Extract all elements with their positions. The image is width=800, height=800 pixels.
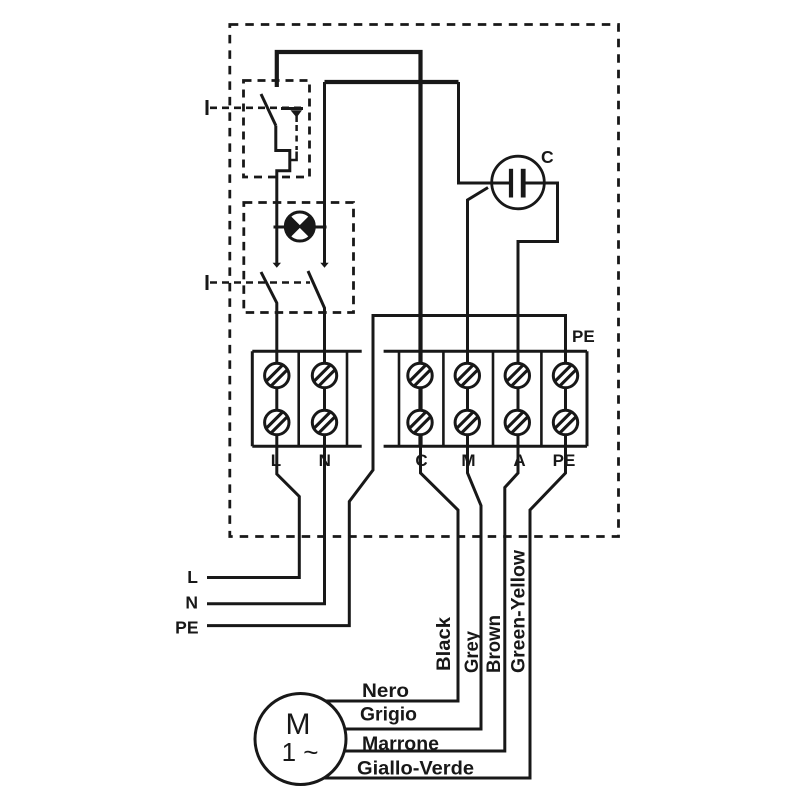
svg-text:Marrone: Marrone (362, 734, 439, 755)
switch S1 blade (261, 94, 276, 126)
svg-text:Brown: Brown (484, 615, 505, 673)
svg-text:L: L (271, 451, 281, 470)
S1 trip arrow (281, 107, 303, 110)
switch S2 left fixed contact foot (273, 263, 281, 268)
terminal N screws (312, 363, 336, 434)
terminal A screws (505, 363, 529, 434)
wire: lamp-branch top horizontal to capacitor feed (thick) (325, 80, 459, 84)
wire: PE terminal down to motor green-yellow lead (325, 375, 566, 778)
capacitor left lead inside circle (486, 182, 510, 185)
thermal overload element (step) and wire down to lamp contact (276, 126, 290, 264)
svg-text:Grey: Grey (462, 631, 483, 673)
S1 mechanical linkage dashed line (210, 107, 303, 110)
wire: terminal C down to motor black lead (326, 440, 458, 701)
svg-text:L: L (187, 567, 198, 587)
signal lamp HL1 (285, 212, 314, 241)
lamp / double-switch dashed box (244, 203, 354, 313)
S2 mechanical linkage actuator tick (206, 275, 209, 290)
svg-text:Green-Yellow: Green-Yellow (509, 550, 530, 673)
terminal C screws (408, 363, 432, 434)
switch S2 right blade and wire to terminal N then to left N lead (207, 271, 325, 604)
S2 mechanical linkage dashed line (210, 281, 310, 284)
svg-text:Black: Black (434, 617, 455, 671)
wire: lamp horizontal stubs (274, 226, 327, 229)
S1 trip linkage dashed vertical (295, 125, 298, 150)
svg-text:M: M (461, 451, 475, 470)
motor M1 circle (255, 694, 346, 785)
overload trip hook (290, 152, 297, 161)
svg-text:A: A (513, 451, 525, 470)
S1 mechanical linkage actuator tick (206, 100, 209, 115)
switch S1 dashed box (244, 81, 310, 178)
svg-text:PE: PE (175, 618, 198, 638)
svg-text:C: C (541, 147, 554, 167)
terminal screws (265, 363, 578, 434)
terminal PE screws (553, 363, 577, 434)
terminal M screws (455, 363, 479, 434)
svg-text:N: N (319, 451, 331, 470)
svg-text:Nero: Nero (362, 681, 409, 702)
switch S2 left blade and wire to terminal L then to left L lead (207, 272, 299, 578)
terminal L screws (265, 363, 289, 434)
wire: capacitor left feed down from top horizontal (459, 82, 511, 183)
wire: capacitor right plate to terminal A (344, 183, 558, 751)
wire: PE terminal up-over-left then down between blocks to PE lead (207, 316, 566, 626)
switch S2 right fixed contact foot (320, 263, 328, 268)
wire: lamp right-side vertical from top horizontal to right contact (323, 82, 326, 263)
terminal block left (L,N) body (252, 351, 361, 446)
svg-text:Giallo-Verde: Giallo-Verde (357, 759, 474, 780)
capacitor plates (509, 169, 513, 198)
outer dashed enclosure box (230, 25, 619, 537)
wire: capacitor to terminal M (diagonal) (346, 188, 488, 730)
terminal block right (C,M,A,PE) body (384, 351, 587, 446)
svg-text:Grigio: Grigio (360, 705, 417, 726)
wire: L feed from switch top to terminal C (thick) (277, 52, 421, 446)
svg-text:N: N (185, 593, 198, 613)
svg-text:C: C (415, 451, 427, 470)
svg-text:1 ~: 1 ~ (282, 737, 319, 767)
svg-text:PE: PE (572, 327, 595, 346)
capacitor C circle (492, 156, 545, 209)
svg-text:PE: PE (553, 451, 576, 470)
